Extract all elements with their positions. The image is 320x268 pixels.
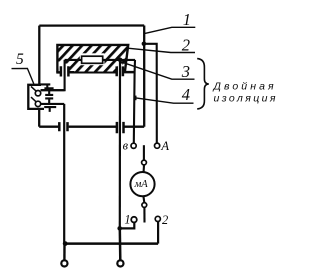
meter bottom connector circle [142,203,147,208]
white gap of capacitor C2 (right upper) [118,64,123,78]
capacitor C5 (bottom left) plates [59,122,67,131]
leader line 4 tick [135,96,137,101]
svg-text:в: в [123,138,129,152]
meter bottom lead [142,196,145,203]
terminal B circle [131,143,136,148]
node (bus left junction dot) [63,241,68,246]
wire: branch to terminal 1 [120,222,135,228]
capacitor plates above pin1 [40,84,54,88]
svg-text:А: А [160,139,169,153]
wire: pin2 down to ground bus [63,104,65,244]
outer case 1 : left edge lower [38,109,40,127]
outer case 1 : top edge [39,24,144,26]
svg-text:1: 1 [183,10,191,29]
leader line 5 [12,68,34,84]
node (junction dot on element wire) [118,58,123,63]
meter top connector circle [142,160,147,165]
capacitor plate below pin2 [44,107,56,112]
svg-text:изоляция: изоляция [214,93,278,105]
wire: probe wire down to earth electrode 2 [119,228,122,260]
capacitor C6 (bottom right) plates [117,122,124,133]
svg-text:2: 2 [182,36,190,55]
element wire through insulation (left segment) [65,59,82,61]
node (junction dot of probe wire and terminal 1 branch) [117,226,122,231]
terminal 1 circle [131,217,137,223]
socket contact circle lower [35,101,40,106]
element wire through insulation (right segment) [103,59,135,61]
leader line 2 [128,48,195,52]
leader line 4 [136,98,194,103]
socket contact circle upper [35,91,40,96]
milliammeter PA circle [130,172,154,196]
contact arm lower [31,97,36,102]
insulation 3 (white rectangle) [82,56,103,63]
svg-text:3: 3 [181,62,190,81]
meter top lead [143,165,145,172]
svg-text:мА: мА [134,179,149,190]
capacitor between pins [45,90,53,104]
outer case 1 : right edge [143,26,145,127]
wire: case to terminal A [144,44,157,143]
wire: bus up to terminal 2 [157,222,159,244]
svg-text:1: 1 [124,213,130,227]
node (junction dot on case right edge) [142,42,147,47]
svg-text:2: 2 [162,213,168,227]
outer case 1 : bottom edge segments (with capacitor gaps) [39,126,144,128]
wire: long probe wire down from junction [119,60,121,229]
earth electrode circle middle [117,260,123,266]
outer case 1 : left edge upper [38,26,40,86]
leader line 3 [121,62,195,79]
wire: element left end down to pin1 [41,60,65,90]
brace (double insulation) [197,59,209,109]
hatched block bottom border segments [57,72,115,74]
ground bus [65,242,158,245]
plug-socket 5 bracket [28,85,44,109]
capacitor C2 (upper right) plates and right stub to wire [117,66,135,76]
svg-text:5: 5 [16,51,24,68]
wire: bus down to earth electrode 1 [63,244,65,261]
heating element block 2 (hatched) [57,45,128,73]
pin 1 wire [41,89,65,91]
meter top stub [143,145,145,160]
terminal 2 circle [155,216,160,221]
wire: element right end down to terminal B [134,60,135,143]
leader line 1 [144,27,195,33]
pin 2 wire [41,103,65,105]
terminal A circle [155,143,160,148]
svg-text:Двойная: Двойная [213,81,277,93]
svg-text:4: 4 [182,85,190,104]
white clearance around insulation 3 [80,53,105,65]
white notch left (liner area) [59,62,65,72]
capacitor C1 (upper left) plates and stubs [56,66,74,76]
contact arm upper [31,86,36,91]
white gap of capacitor C1 (left upper) [62,64,68,78]
meter bottom free wire [143,207,145,222]
earth electrode circle left [61,260,67,266]
